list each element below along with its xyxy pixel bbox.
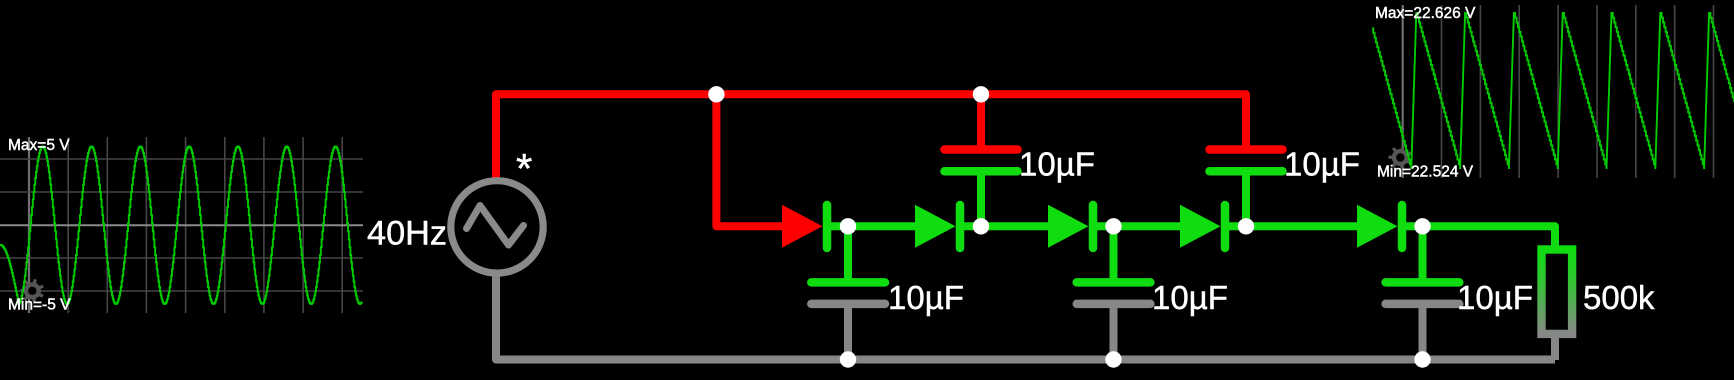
svg-text:Min=22.524 V: Min=22.524 V (1377, 164, 1474, 181)
node D4 out (1246,226) (1238, 218, 1254, 234)
left scope grid (0, 137, 363, 313)
node B (848,226) (840, 218, 856, 234)
wire: green main rail node D to D5 (1229, 222, 1359, 230)
node C (981,226) (973, 218, 989, 234)
diode D1 (782, 205, 823, 248)
AC source sine symbol (467, 206, 524, 246)
left scope sine trace (0, 147, 362, 304)
left scope gear icon (20, 279, 43, 303)
svg-text:*: * (516, 145, 532, 192)
capacitor C1 10uF top (945, 145, 1018, 154)
node A (716,94) (708, 86, 724, 102)
svg-text:10µF: 10µF (1019, 146, 1095, 183)
svg-text:Max=22.626 V: Max=22.626 V (1375, 5, 1476, 22)
right scope grid (1403, 5, 1714, 178)
wire: top red rail from source to C2 corner (496, 94, 1246, 181)
right scope gear icon (1388, 146, 1411, 170)
svg-text:10µF: 10µF (888, 279, 964, 316)
AC source V1 circle (451, 181, 543, 273)
capacitor C3 10uF bottom (844, 226, 852, 278)
node top C1 (981,94) (973, 86, 989, 102)
capacitor C2 10uF top (1210, 145, 1283, 154)
node E (1423,226) (1414, 218, 1430, 234)
wire: resistor bottom stub gray (1551, 334, 1559, 360)
svg-text:Max=5 V: Max=5 V (8, 137, 70, 154)
wire: gray bottom rail (496, 273, 1555, 360)
wire: green main rail node B to node C (964, 222, 1049, 230)
left scope center line (0, 224, 363, 226)
capacitor C4 10uF bottom (1110, 226, 1118, 278)
diode D5 (1357, 205, 1398, 248)
node bottom C3 (848,360) (840, 351, 856, 367)
wire: red drop from node A to D1 anode (716, 94, 783, 226)
svg-text:500k: 500k (1583, 279, 1655, 316)
right scope sawtooth trace (1372, 13, 1734, 169)
node bottom C4 (1113,360) (1105, 351, 1121, 367)
svg-text:Min=-5 V: Min=-5 V (8, 297, 71, 314)
wire: green node E to resistor top (1406, 226, 1555, 250)
wire: green main rail node C to node D (1097, 222, 1182, 230)
node D (1114,226) (1105, 218, 1121, 234)
wire: green main rail D1 bar to node B (831, 222, 916, 230)
wire: red stub top rail to C1 (977, 94, 985, 146)
node bottom C5 (1422,360) (1414, 351, 1430, 367)
diode D3 (1048, 205, 1089, 248)
diode D2 (915, 205, 956, 248)
diode D4 (1180, 205, 1221, 248)
svg-text:10µF: 10µF (1284, 146, 1360, 183)
svg-text:40Hz: 40Hz (367, 215, 447, 253)
capacitor C5 10uF bottom (1419, 226, 1427, 278)
svg-text:10µF: 10µF (1457, 279, 1533, 316)
svg-text:10µF: 10µF (1152, 279, 1228, 316)
